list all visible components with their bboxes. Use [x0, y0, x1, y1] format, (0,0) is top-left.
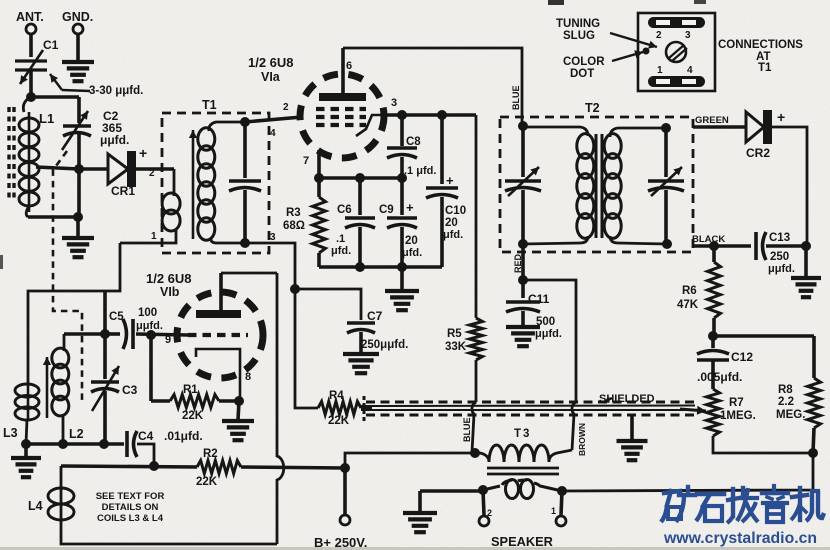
- svg-text:www.crystalradio.cn: www.crystalradio.cn: [663, 530, 817, 547]
- svg-text:R4: R4: [329, 390, 344, 402]
- svg-text:20: 20: [405, 235, 418, 247]
- svg-text:2.2: 2.2: [778, 396, 794, 408]
- svg-text:μfd.: μfd.: [331, 245, 351, 257]
- svg-text:3: 3: [685, 30, 691, 41]
- svg-text:22K: 22K: [328, 415, 350, 427]
- svg-text:47K: 47K: [677, 299, 699, 311]
- svg-text:SPEAKER: SPEAKER: [491, 534, 553, 549]
- svg-text:CR2: CR2: [746, 146, 770, 160]
- svg-text:L4: L4: [28, 499, 43, 513]
- svg-text:250μμfd.: 250μμfd.: [361, 339, 408, 351]
- svg-text:C7: C7: [367, 309, 383, 323]
- svg-text:8: 8: [245, 371, 251, 383]
- svg-text:2: 2: [283, 102, 289, 113]
- svg-text:R8: R8: [778, 384, 793, 396]
- svg-text:L3: L3: [3, 426, 18, 440]
- svg-text:L2: L2: [69, 427, 84, 441]
- svg-text:.005μfd.: .005μfd.: [697, 370, 742, 384]
- svg-text:C13: C13: [769, 232, 790, 244]
- svg-text:4: 4: [270, 128, 276, 139]
- svg-text:1: 1: [151, 231, 157, 242]
- svg-text:T2: T2: [585, 101, 600, 115]
- svg-text:2: 2: [149, 168, 155, 179]
- svg-text:68Ω: 68Ω: [283, 220, 305, 232]
- svg-text:.1: .1: [336, 233, 345, 245]
- svg-text:250: 250: [770, 251, 789, 263]
- svg-text:μfd.: μfd.: [443, 229, 463, 241]
- svg-text:.1 μfd.: .1 μfd.: [404, 165, 436, 177]
- svg-text:GREEN: GREEN: [695, 115, 729, 126]
- svg-text:C4: C4: [138, 429, 154, 443]
- svg-text:+: +: [446, 173, 454, 188]
- svg-text:T1: T1: [758, 62, 772, 74]
- svg-text:VIb: VIb: [160, 285, 180, 299]
- svg-text:C6: C6: [337, 204, 352, 216]
- svg-text:22K: 22K: [196, 476, 218, 488]
- svg-text:C12: C12: [731, 350, 753, 364]
- svg-text:CONNECTIONS: CONNECTIONS: [718, 39, 803, 51]
- svg-text:R7: R7: [729, 397, 744, 409]
- svg-text:SLUG: SLUG: [563, 30, 595, 42]
- svg-text:C8: C8: [406, 136, 421, 148]
- svg-text:33K: 33K: [445, 341, 467, 353]
- svg-text:SEE TEXT FOR: SEE TEXT FOR: [96, 491, 165, 502]
- svg-text:2: 2: [656, 30, 662, 41]
- svg-text:μμfd.: μμfd.: [136, 320, 163, 332]
- svg-text:T1: T1: [202, 98, 217, 112]
- svg-text:BROWN: BROWN: [577, 423, 587, 456]
- svg-text:3-30 μμfd.: 3-30 μμfd.: [89, 85, 143, 97]
- svg-text:22K: 22K: [182, 410, 204, 422]
- svg-text:GND.: GND.: [62, 10, 93, 24]
- svg-text:RED: RED: [513, 253, 523, 273]
- svg-text:1: 1: [551, 506, 556, 516]
- svg-text:BLUE: BLUE: [511, 86, 521, 111]
- svg-text:.01μfd.: .01μfd.: [164, 429, 203, 443]
- svg-text:DETAILS ON: DETAILS ON: [102, 502, 159, 513]
- svg-text:VIa: VIa: [261, 70, 281, 84]
- svg-text:6: 6: [346, 60, 352, 72]
- svg-text:4: 4: [687, 65, 693, 76]
- svg-text:R2: R2: [203, 448, 218, 460]
- svg-text:COLOR: COLOR: [563, 56, 605, 68]
- svg-text:C9: C9: [379, 204, 394, 216]
- svg-text:μμfd.: μμfd.: [535, 328, 562, 340]
- svg-text:R1: R1: [183, 384, 198, 396]
- svg-text:2: 2: [487, 508, 492, 518]
- svg-text:+: +: [139, 145, 147, 161]
- svg-text:MEG.: MEG.: [776, 409, 805, 421]
- svg-text:100: 100: [138, 307, 157, 319]
- svg-text:BLACK: BLACK: [692, 234, 725, 245]
- svg-text:7: 7: [303, 155, 309, 167]
- svg-text:TUNING: TUNING: [556, 18, 600, 30]
- svg-text:CR1: CR1: [111, 184, 135, 198]
- svg-text:C11: C11: [528, 292, 550, 306]
- svg-text:C1: C1: [43, 38, 59, 52]
- svg-text:DOT: DOT: [570, 68, 594, 80]
- svg-text:3: 3: [391, 97, 397, 109]
- svg-text:μμfd.: μμfd.: [100, 133, 129, 147]
- svg-text:COILS L3 & L4: COILS L3 & L4: [97, 513, 164, 524]
- svg-text:R3: R3: [286, 207, 301, 219]
- svg-text:BLUE: BLUE: [462, 418, 472, 443]
- svg-text:R6: R6: [682, 285, 697, 297]
- svg-text:μμfd.: μμfd.: [768, 263, 795, 275]
- svg-text:T3: T3: [514, 428, 531, 440]
- svg-text:μfd.: μfd.: [402, 247, 422, 259]
- svg-text:+: +: [777, 109, 785, 125]
- svg-text:1/2 6U8: 1/2 6U8: [248, 55, 294, 70]
- svg-text:C10: C10: [445, 205, 466, 217]
- svg-text:1/2 6U8: 1/2 6U8: [146, 271, 192, 286]
- svg-text:3: 3: [270, 232, 276, 243]
- svg-text:C3: C3: [122, 383, 138, 397]
- svg-text:1MEG.: 1MEG.: [720, 410, 756, 422]
- svg-text:+: +: [406, 200, 414, 215]
- svg-text:20: 20: [445, 217, 458, 229]
- svg-text:1: 1: [657, 65, 663, 76]
- svg-text:L1: L1: [39, 111, 54, 126]
- svg-text:500: 500: [536, 316, 555, 328]
- svg-text:C5: C5: [109, 311, 124, 323]
- svg-text:R5: R5: [447, 328, 462, 340]
- svg-text:ANT.: ANT.: [16, 10, 44, 24]
